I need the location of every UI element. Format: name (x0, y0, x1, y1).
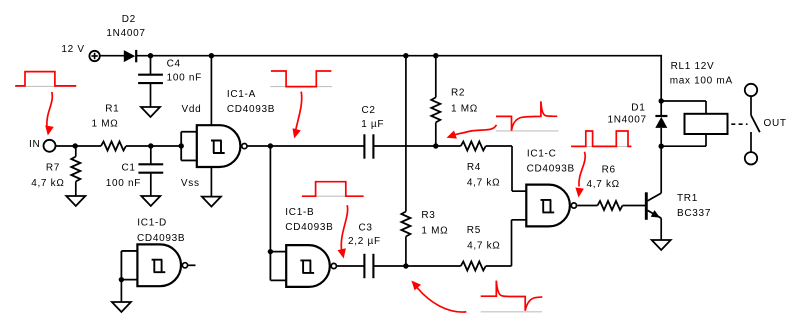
svg-text:CD4093B: CD4093B (527, 164, 575, 175)
svg-text:4,7 kΩ: 4,7 kΩ (467, 240, 500, 251)
svg-text:IN: IN (29, 139, 40, 150)
svg-text:Vss: Vss (181, 178, 200, 189)
svg-text:R7: R7 (46, 162, 60, 173)
svg-text:TR1: TR1 (677, 193, 698, 204)
svg-text:4,7 kΩ: 4,7 kΩ (587, 179, 620, 190)
svg-text:1 MΩ: 1 MΩ (421, 225, 448, 236)
svg-text:max 100 mA: max 100 mA (670, 76, 733, 87)
svg-text:IC1-A: IC1-A (227, 89, 256, 100)
svg-text:C4: C4 (167, 59, 181, 70)
svg-text:R4: R4 (467, 162, 481, 173)
svg-text:1 µF: 1 µF (361, 119, 384, 130)
svg-text:CD4093B: CD4093B (227, 104, 275, 115)
svg-text:D2: D2 (122, 14, 136, 25)
svg-text:Vdd: Vdd (182, 104, 202, 115)
svg-text:IC1-B: IC1-B (285, 207, 314, 218)
svg-text:IC1-D: IC1-D (137, 218, 167, 229)
svg-text:CD4093B: CD4093B (285, 222, 333, 233)
svg-text:BC337: BC337 (677, 208, 711, 219)
svg-text:C3: C3 (359, 223, 373, 234)
svg-text:4,7 kΩ: 4,7 kΩ (31, 178, 64, 189)
svg-text:R5: R5 (467, 225, 481, 236)
svg-text:1N4007: 1N4007 (106, 28, 145, 39)
svg-text:1 MΩ: 1 MΩ (92, 119, 119, 130)
svg-text:C1: C1 (122, 162, 136, 173)
svg-text:1N4007: 1N4007 (608, 115, 647, 126)
svg-text:C2: C2 (362, 105, 376, 116)
svg-text:CD4093B: CD4093B (137, 233, 185, 244)
svg-text:R6: R6 (602, 165, 616, 176)
svg-text:OUT: OUT (764, 118, 787, 129)
svg-text:R3: R3 (421, 210, 435, 221)
svg-text:RL1 12V: RL1 12V (671, 61, 715, 72)
svg-text:1 MΩ: 1 MΩ (451, 104, 478, 115)
svg-text:100 nF: 100 nF (106, 178, 141, 189)
svg-text:D1: D1 (631, 103, 645, 114)
svg-text:R2: R2 (451, 88, 465, 99)
svg-text:12 V: 12 V (61, 44, 84, 55)
svg-text:R1: R1 (105, 104, 119, 115)
svg-text:100 nF: 100 nF (167, 72, 202, 83)
svg-text:IC1-C: IC1-C (527, 148, 557, 159)
svg-text:4,7 kΩ: 4,7 kΩ (467, 178, 500, 189)
svg-text:2,2 µF: 2,2 µF (348, 236, 381, 247)
